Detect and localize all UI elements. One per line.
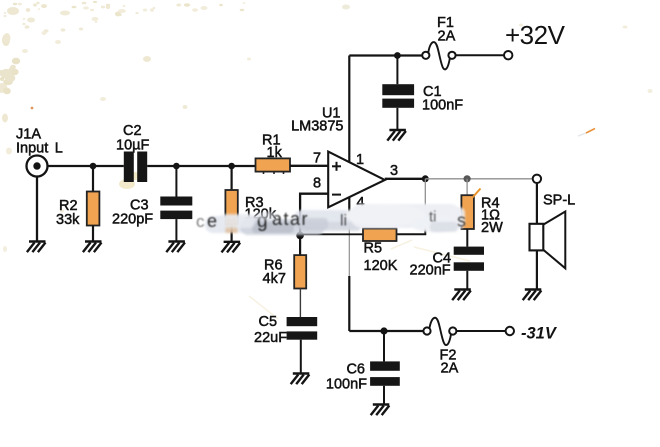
- feedback wire down: [424, 179, 426, 230]
- pin 4 stub: [348, 197, 350, 217]
- wire C1 to ground: [396, 108, 398, 130]
- wire node to R3: [231, 166, 233, 190]
- terminal SP-L: [533, 175, 541, 183]
- svg-text:ti: ti: [429, 209, 437, 226]
- capacitor C5: [287, 317, 318, 340]
- ground below C4: [452, 290, 471, 301]
- wire R6 to C5: [299, 289, 301, 318]
- node at C6: [380, 327, 387, 334]
- node output feedback: [422, 175, 429, 182]
- pin 1 wire to +rail: [348, 56, 350, 163]
- fuse F2: [423, 318, 456, 345]
- wire jack stem down: [36, 177, 38, 242]
- resistor R4: [461, 195, 474, 229]
- svg-text:22uF: 22uF: [254, 330, 287, 346]
- svg-text:2A: 2A: [438, 29, 456, 45]
- wire R4 drop: [466, 179, 468, 195]
- wire C3 to ground: [175, 219, 177, 241]
- svg-text:120K: 120K: [364, 258, 398, 274]
- svg-text:Input L: Input L: [16, 141, 63, 157]
- svg-text:LM3875: LM3875: [291, 119, 343, 135]
- capacitor C2: [124, 152, 147, 183]
- ground below C5: [291, 374, 310, 385]
- fuse F1: [422, 42, 455, 69]
- op-amp U1 LM3875: [328, 152, 385, 208]
- node at R4: [464, 175, 471, 182]
- capacitor C3: [160, 197, 192, 220]
- svg-text:atar: atar: [272, 209, 309, 229]
- svg-text:li: li: [340, 213, 347, 230]
- wire node to R6: [299, 235, 301, 255]
- svg-text:2A: 2A: [441, 361, 459, 377]
- node at C1: [394, 52, 401, 59]
- svg-text:220pF: 220pF: [112, 212, 153, 228]
- resistor R5: [363, 229, 397, 241]
- capacitor C1: [382, 84, 414, 108]
- resistor R6: [294, 255, 306, 288]
- wire speaker to ground: [536, 251, 538, 290]
- wire F1 to +32V terminal: [456, 54, 504, 56]
- wire jack to C2: [48, 165, 124, 167]
- speaker SP-L: [530, 212, 566, 269]
- svg-text:C5: C5: [259, 314, 278, 330]
- wire pin8 from inverting input: [300, 194, 328, 236]
- svg-text:3: 3: [390, 163, 398, 179]
- ground below C6: [371, 405, 390, 416]
- orange slash mark: [473, 189, 481, 198]
- ground below speaker: [523, 290, 542, 301]
- svg-text:220nF: 220nF: [410, 263, 451, 279]
- ground below R2: [83, 242, 102, 253]
- svg-text:10µF: 10µF: [116, 138, 149, 154]
- wire node to C3: [175, 166, 177, 197]
- svg-text:2W: 2W: [481, 220, 503, 236]
- svg-text:s: s: [457, 211, 466, 231]
- top supply rail: [349, 54, 422, 56]
- negative supply rail: [349, 330, 423, 332]
- ticks under R1: [264, 172, 284, 174]
- node at C3: [173, 163, 180, 170]
- svg-text:7: 7: [313, 151, 321, 167]
- wire node to C6: [383, 331, 385, 361]
- resistor R3: [225, 190, 237, 224]
- minus sign: [332, 194, 341, 196]
- wire C2 to R1: [147, 165, 255, 167]
- ground below C1: [387, 130, 406, 141]
- resistor R2: [87, 192, 100, 226]
- wire output to R4 and SP (thin): [425, 178, 533, 180]
- svg-text:4k7: 4k7: [263, 271, 286, 287]
- svg-text:C6: C6: [346, 362, 365, 378]
- wire F2 to -31V terminal: [456, 330, 505, 332]
- connector J1A input jack: [27, 156, 48, 177]
- capacitor C6: [370, 361, 400, 385]
- ground below R3: [222, 242, 241, 253]
- plus sign: [332, 162, 341, 171]
- svg-text:e: e: [207, 211, 217, 231]
- wire node to C1: [396, 56, 398, 85]
- ground below C3: [166, 242, 185, 253]
- wire C4 to ground: [466, 271, 468, 290]
- svg-text:33k: 33k: [56, 212, 80, 228]
- output wire pin3: [385, 178, 426, 180]
- wire C5 to ground: [300, 340, 302, 374]
- svg-text:8: 8: [313, 176, 321, 192]
- feedback corner: [397, 229, 426, 235]
- feedback wire to node (through R5): [300, 233, 363, 235]
- wire R1 to pin7: [290, 165, 328, 167]
- wire R4 to C4: [466, 229, 468, 247]
- wire terminal to speaker: [536, 183, 538, 224]
- node at R2: [90, 163, 97, 170]
- terminal +32V: [504, 51, 512, 59]
- svg-text:R5: R5: [364, 241, 383, 257]
- wire node to R2: [92, 166, 94, 192]
- ground below J1A: [27, 242, 46, 253]
- node at R3: [228, 163, 235, 170]
- svg-text:-31V: -31V: [521, 325, 558, 343]
- pin 4 wire upper (thin): [348, 216, 350, 277]
- svg-text:+32V: +32V: [505, 20, 566, 50]
- resistor R1: [256, 158, 291, 171]
- svg-text:SP-L: SP-L: [543, 193, 575, 209]
- svg-text:100nF: 100nF: [326, 377, 367, 393]
- wire R3 to ground: [231, 224, 233, 242]
- node feedback R6: [296, 232, 304, 240]
- wire R2 to ground: [92, 226, 94, 242]
- svg-text:c: c: [196, 212, 205, 231]
- pin 4 wire lower to -rail: [348, 276, 350, 331]
- svg-text:100nF: 100nF: [422, 98, 463, 114]
- capacitor C4: [454, 247, 484, 271]
- svg-text:1k: 1k: [267, 145, 283, 161]
- wire C6 to ground: [383, 386, 385, 405]
- terminal -31V: [506, 327, 514, 335]
- faint scratch marks: [249, 133, 586, 319]
